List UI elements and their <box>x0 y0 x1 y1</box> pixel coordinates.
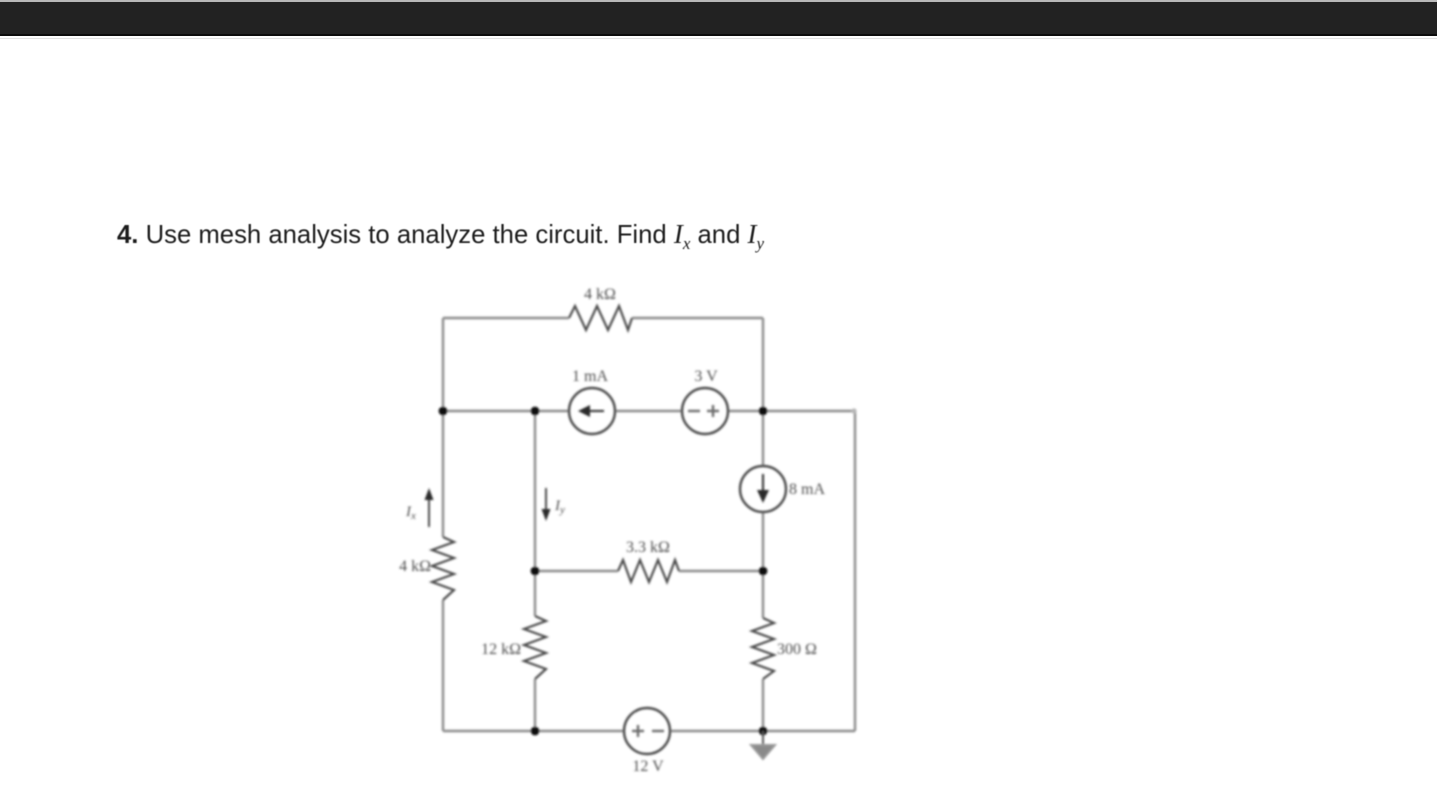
current source 1mA arrow <box>578 405 604 417</box>
node dot G <box>759 727 768 736</box>
svg-text:3 V: 3 V <box>694 368 718 385</box>
wire: left rail <box>442 318 444 537</box>
node dot E <box>759 567 768 576</box>
wire: bottom rail left <box>443 730 624 732</box>
wire: second rail seg3 <box>728 410 855 412</box>
svg-text:12 V: 12 V <box>632 758 664 775</box>
svg-text:300 Ω: 300 Ω <box>777 641 817 658</box>
wire: left rail lower <box>442 600 444 731</box>
current source 1mA circle <box>569 388 615 434</box>
current source 8mA circle <box>740 466 786 512</box>
Ix arrow <box>425 488 434 527</box>
resistor 4k left zigzag <box>432 537 454 600</box>
svg-text:Ix: Ix <box>405 504 416 522</box>
node dot H faint <box>851 408 856 413</box>
voltage source 3V circle <box>682 388 728 434</box>
svg-text:Iy: Iy <box>554 498 565 516</box>
node dot D <box>531 567 540 576</box>
node dot A <box>439 407 448 416</box>
wire: middle rail left <box>535 570 618 572</box>
wire: far right rail <box>854 411 856 731</box>
resistor 12k zigzag <box>524 616 546 679</box>
svg-text:8 mA: 8 mA <box>789 481 825 498</box>
svg-text:4 kΩ: 4 kΩ <box>584 286 616 303</box>
resistor 3.3k zigzag <box>618 560 679 582</box>
wire: right-mid rail top <box>762 318 764 466</box>
resistor 300 zigzag <box>752 618 774 679</box>
svg-text:12 kΩ: 12 kΩ <box>481 641 521 658</box>
voltage source 12V circle <box>624 708 670 754</box>
wire: right-mid rail bottom <box>762 679 764 731</box>
svg-text:1 mA: 1 mA <box>572 368 608 385</box>
ground <box>751 731 775 759</box>
title text <box>117 219 764 254</box>
wire: second rail seg1 <box>443 410 569 412</box>
wire: bottom rail right <box>670 730 855 732</box>
node dot B <box>531 407 540 416</box>
wire: top rail right <box>632 317 763 319</box>
resistor 4k top zigzag <box>569 306 632 330</box>
wire: middle branch lower <box>534 679 536 731</box>
node dot C <box>759 407 768 416</box>
voltage source 3V signs <box>688 405 719 417</box>
voltage source 12V signs <box>632 725 664 737</box>
current source 8mA arrow <box>757 474 769 503</box>
labels <box>399 286 825 775</box>
wire: right-mid rail mid <box>762 512 764 618</box>
Iy arrow <box>542 488 551 521</box>
wire: middle branch upper <box>534 411 536 616</box>
top black bar <box>0 0 1437 36</box>
wire: second rail seg2 <box>615 410 682 412</box>
wire: top rail left <box>443 317 569 319</box>
wire: middle rail right <box>679 570 763 572</box>
svg-text:3.3 kΩ: 3.3 kΩ <box>626 539 670 556</box>
svg-text:4 kΩ: 4 kΩ <box>399 558 431 575</box>
node dot F <box>531 727 540 736</box>
